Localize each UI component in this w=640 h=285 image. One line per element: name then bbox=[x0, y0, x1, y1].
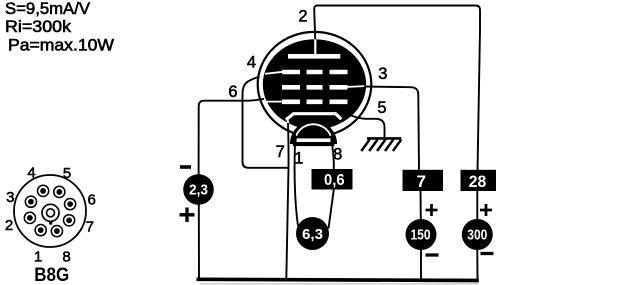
valve heater white arc edge bbox=[296, 124, 331, 135]
heater meter 0,6 A bbox=[312, 169, 353, 190]
socket label 6 bbox=[88, 192, 96, 209]
ground symbol bbox=[361, 138, 401, 151]
valve cathode bbox=[286, 114, 341, 120]
svg-text:Ri=300k: Ri=300k bbox=[5, 18, 72, 36]
svg-text:150: 150 bbox=[411, 228, 431, 244]
spec text Pa=max.10W bbox=[8, 37, 114, 55]
socket pin 8 bbox=[51, 226, 62, 237]
scan artifact line at bottom bbox=[200, 283, 478, 284]
pin label 7 bbox=[276, 143, 285, 161]
anode current meter 28 mA bbox=[461, 170, 497, 191]
svg-text:6: 6 bbox=[228, 83, 237, 101]
svg-text:300: 300 bbox=[467, 228, 487, 244]
socket label 3 bbox=[6, 189, 14, 206]
wire heater pin 1 to 6,3V bbox=[295, 134, 298, 226]
valve grid row 1 bbox=[282, 70, 348, 75]
socket pin 3 bbox=[25, 196, 36, 207]
svg-text:0,6: 0,6 bbox=[324, 172, 345, 189]
socket label 5 bbox=[63, 165, 71, 182]
pin label 2 bbox=[298, 8, 307, 26]
screen supply 150 V bbox=[406, 219, 437, 250]
svg-text:5: 5 bbox=[377, 99, 386, 117]
wire pin 5 to ground bbox=[351, 116, 385, 139]
socket centre spigot bbox=[42, 204, 59, 224]
socket outline B8G bbox=[14, 175, 86, 247]
valve heater chord bar bbox=[293, 142, 335, 146]
ground rail bbox=[197, 279, 479, 280]
pin label 3 bbox=[378, 65, 387, 83]
socket pin 1 bbox=[35, 225, 46, 236]
plus sign of 2,3 bbox=[180, 208, 195, 223]
grid stub to pin 6 bbox=[266, 101, 283, 103]
valve heater dome (filled) bbox=[293, 124, 334, 145]
socket pin 7 bbox=[64, 215, 75, 226]
svg-text:6,3: 6,3 bbox=[302, 226, 323, 243]
socket pin 4 bbox=[38, 185, 49, 196]
minus sign of 150 bbox=[426, 253, 439, 256]
wire anode top rail (pin 2 to HT) bbox=[314, 6, 480, 171]
wire 7 meter to 150V bbox=[420, 191, 422, 220]
svg-text:3: 3 bbox=[6, 189, 14, 206]
svg-text:8: 8 bbox=[62, 249, 70, 266]
socket pin 2 bbox=[24, 212, 35, 223]
valve grid row 3 bbox=[282, 100, 348, 105]
svg-text:5: 5 bbox=[63, 165, 71, 182]
pin label 1 bbox=[294, 150, 303, 168]
socket label 7 bbox=[86, 219, 94, 236]
svg-text:2,3: 2,3 bbox=[189, 182, 208, 199]
spec text S=9,5mA/V bbox=[5, 0, 90, 18]
minus sign of 300 bbox=[481, 252, 494, 255]
spec text Ri=300k bbox=[5, 18, 72, 36]
pin label 4 bbox=[247, 54, 256, 72]
svg-text:2: 2 bbox=[5, 217, 13, 234]
screen current meter 7 mA bbox=[403, 170, 444, 191]
wire pin 6 grid lead to bias cell bbox=[199, 99, 264, 175]
pin label 8 bbox=[333, 146, 342, 164]
socket label 8 bbox=[62, 249, 70, 266]
minus sign of 2,3 bbox=[180, 165, 191, 169]
grid stub to pin 4 bbox=[265, 72, 283, 74]
wire pin 3 screen to 7mA meter bbox=[364, 87, 419, 170]
plus sign of 300 bbox=[480, 204, 492, 216]
svg-text:4: 4 bbox=[27, 165, 35, 182]
svg-text:7: 7 bbox=[276, 143, 285, 161]
svg-text:1: 1 bbox=[34, 249, 42, 266]
svg-text:7: 7 bbox=[416, 172, 425, 191]
anode supply 300 V bbox=[462, 219, 493, 250]
socket label 4 bbox=[27, 165, 35, 182]
cathode lead (white inside bulb) bbox=[287, 117, 289, 125]
grid stub to pin 3 bbox=[346, 86, 367, 87]
wire pin 7 cathode to ground rail bbox=[286, 123, 288, 280]
svg-text:3: 3 bbox=[378, 65, 387, 83]
plus sign of 150 bbox=[426, 204, 438, 216]
pin label 6 bbox=[228, 83, 237, 101]
svg-text:2: 2 bbox=[298, 8, 307, 26]
valve V1 envelope bbox=[258, 32, 372, 137]
svg-text:Pa=max.10W: Pa=max.10W bbox=[8, 37, 114, 55]
svg-text:6: 6 bbox=[88, 192, 96, 209]
valve heater white gap band bbox=[297, 138, 331, 142]
bias cell 2,3 V bbox=[183, 174, 214, 205]
wire 0,6 meter to 6,3V bbox=[329, 190, 334, 229]
socket pin 6 bbox=[65, 199, 76, 210]
wire bias cell to ground rail bbox=[198, 204, 200, 279]
valve anode (white bar and lead) bbox=[288, 38, 340, 59]
socket label 1 bbox=[34, 249, 42, 266]
svg-text:28: 28 bbox=[469, 173, 487, 191]
socket label 2 bbox=[5, 217, 13, 234]
svg-text:4: 4 bbox=[247, 54, 256, 72]
svg-text:B8G: B8G bbox=[34, 265, 69, 285]
socket caption B8G bbox=[34, 265, 69, 285]
socket pin 5 bbox=[54, 186, 65, 197]
wire 300V to ground rail bbox=[476, 250, 478, 280]
pin label 5 bbox=[377, 99, 386, 117]
svg-text:7: 7 bbox=[86, 219, 94, 236]
svg-text:S=9,5mA/V: S=9,5mA/V bbox=[5, 0, 90, 18]
wire 28 meter to 300V bbox=[476, 191, 478, 220]
heater supply 6,3 V bbox=[296, 217, 329, 250]
valve grid row 2 bbox=[282, 85, 348, 90]
wire pin 4 lead to cathode bus bbox=[243, 77, 289, 168]
wire heater pin 8 to 0,6 meter bbox=[332, 134, 334, 169]
wire 150V to ground rail bbox=[420, 250, 422, 280]
